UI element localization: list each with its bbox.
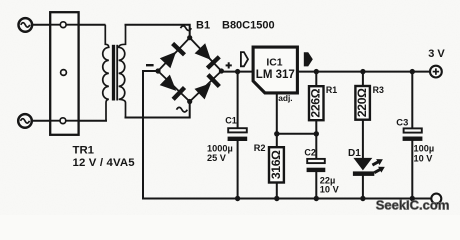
resistor R2 (269, 147, 284, 182)
svg-text:1000µ: 1000µ (207, 143, 233, 153)
svg-text:IC1: IC1 (266, 57, 282, 68)
wire IC1 adj pin down to R2 (276, 94, 278, 147)
svg-text:25 V: 25 V (207, 153, 227, 163)
current flow arrow at IC1 output (filled) (304, 52, 313, 66)
svg-text:R2: R2 (254, 143, 266, 153)
svg-text:B80C1500: B80C1500 (222, 20, 275, 32)
svg-text:316Ω: 316Ω (269, 150, 283, 179)
bridge diode bottom-left (minus to AC bottom) (159, 74, 186, 101)
AC source top (19, 18, 33, 32)
svg-text:3 V: 3 V (428, 48, 445, 60)
junction dot bridge AC top vertex (187, 35, 192, 40)
svg-text:B1: B1 (196, 19, 210, 31)
svg-text:R3: R3 (373, 85, 384, 95)
junction dot C3 top node (410, 69, 415, 74)
wire R2 bottom lead (276, 183, 278, 198)
bridge diode top-left (minus to AC top) (159, 42, 186, 69)
capacitor C2 (307, 159, 326, 172)
svg-text:10 V: 10 V (320, 184, 340, 194)
junction dot adj node (274, 131, 279, 136)
bridge diode top-right (AC top to plus) (194, 43, 221, 70)
mains connector block (50, 12, 78, 135)
svg-text:C2: C2 (304, 147, 316, 157)
bridge diode bottom-right (AC bottom to plus) (194, 73, 221, 100)
wire D1 cathode to ground rail (362, 176, 364, 199)
wire IC1 output rail to 3 V terminal (299, 71, 431, 73)
output terminal plus (3 V) (430, 66, 442, 78)
bridge plus polarity mark (226, 62, 232, 68)
wire C3 top lead (411, 72, 413, 129)
wire C3 bottom lead (411, 141, 413, 199)
junction dot R3 top node (360, 69, 365, 74)
connector pin middle (61, 70, 67, 76)
junction dot bridge AC bottom vertex (187, 99, 192, 104)
svg-text:D1: D1 (348, 148, 361, 159)
svg-text:R1: R1 (326, 85, 337, 95)
wire R3 bottom lead to D1 anode (362, 120, 364, 158)
wire transformer secondary bottom to bridge AC bottom (126, 102, 190, 118)
transformer TR1 primary winding (103, 25, 109, 121)
svg-text:TR1: TR1 (73, 144, 95, 156)
wire R3 top lead (362, 72, 364, 86)
bridge AC mark bottom (~) (177, 107, 188, 112)
output terminal minus (0 V) (431, 194, 441, 204)
wire AC source bottom to connector and transformer primary bottom (32, 120, 107, 122)
transformer TR1 core (114, 45, 118, 101)
wire C1 top lead (237, 72, 239, 129)
wire C2 bottom lead (315, 172, 317, 199)
svg-text:LM 317: LM 317 (256, 69, 295, 81)
wire C1 bottom lead (237, 141, 239, 199)
resistor R1 (309, 86, 324, 120)
junction dot C1 ground (235, 196, 240, 201)
current flow arrow at IC1 input (open) (241, 52, 248, 66)
bridge AC mark top (~) (181, 26, 192, 31)
LED D1 light emission arrows (371, 156, 387, 175)
capacitor C3 (403, 128, 423, 141)
junction dot R1 top node (314, 69, 319, 74)
wire ground rail (0 V) (143, 198, 431, 200)
transformer TR1 secondary winding (119, 25, 126, 118)
svg-text:10 V: 10 V (414, 154, 434, 164)
connector pin bottom (50, 118, 78, 124)
junction dot R1/C2 node (314, 131, 319, 136)
wire bridge minus terminal down to ground rail (143, 71, 158, 199)
capacitor C1 (228, 128, 248, 141)
svg-text:C1: C1 (225, 116, 237, 126)
wire R1 top lead (315, 72, 317, 86)
svg-text:C3: C3 (396, 116, 408, 127)
junction dot bridge plus vertex (219, 68, 224, 73)
wire adj node to C2 node (277, 133, 317, 135)
wire transformer secondary top to bridge AC top (126, 25, 190, 38)
svg-text:SeekIC.com: SeekIC.com (376, 197, 450, 212)
resistor R3 (355, 86, 370, 120)
svg-text:220Ω: 220Ω (355, 88, 369, 117)
voltage regulator IC1 LM317 body (253, 47, 297, 93)
junction dot C3 ground (410, 196, 415, 201)
bridge minus polarity mark (146, 64, 154, 66)
LED D1 (353, 158, 374, 176)
svg-text:226Ω: 226Ω (309, 88, 323, 117)
junction dot C1 top node (235, 69, 240, 74)
connector pin top (50, 22, 78, 28)
bridge rectifier B1 diamond (158, 38, 221, 102)
svg-text:12 V / 4VA5: 12 V / 4VA5 (73, 157, 136, 169)
svg-text:100µ: 100µ (414, 144, 435, 154)
wire bridge plus terminal to IC1 input (221, 71, 251, 73)
wire R1 bottom lead to C2 top (315, 121, 317, 159)
AC source bottom (18, 114, 32, 128)
svg-text:adj.: adj. (278, 93, 292, 103)
junction dot R2 ground (274, 196, 279, 201)
wire AC source top to connector and transformer primary top (32, 24, 105, 26)
junction dot C2 ground (314, 196, 319, 201)
junction dot D1 ground (360, 196, 365, 201)
junction dot bridge minus vertex (155, 68, 160, 73)
